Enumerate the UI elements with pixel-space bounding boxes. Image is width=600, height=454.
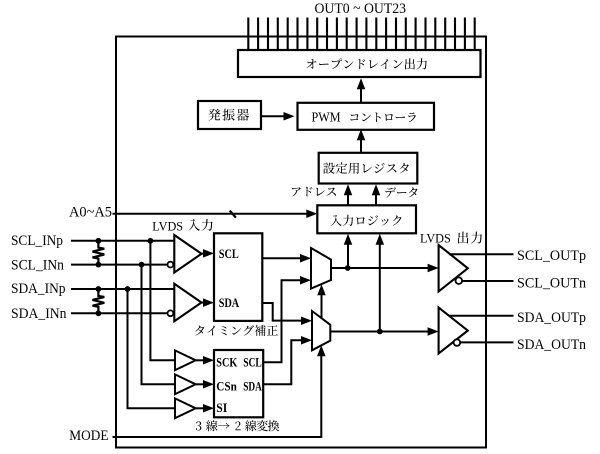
svg-text:OUT0 ~ OUT23: OUT0 ~ OUT23 [315, 1, 407, 17]
svg-text:SCL_INn: SCL_INn [11, 258, 64, 274]
svg-text:SCL_OUTn: SCL_OUTn [517, 276, 586, 292]
svg-text:LVDS: LVDS [420, 232, 451, 246]
svg-text:PWM: PWM [312, 111, 341, 126]
svg-text:SCK: SCK [216, 354, 238, 369]
svg-text:SCL_OUTp: SCL_OUTp [517, 248, 586, 264]
svg-text:A0~A5: A0~A5 [69, 205, 112, 221]
svg-text:SDA: SDA [219, 295, 240, 310]
svg-text:SCL: SCL [219, 246, 239, 261]
svg-text:SDA_OUTn: SDA_OUTn [517, 337, 586, 353]
svg-text:LVDS: LVDS [152, 219, 183, 233]
svg-text:SCL_INp: SCL_INp [11, 233, 63, 249]
svg-text:SDA_INp: SDA_INp [11, 281, 66, 297]
svg-text:SCL: SCL [243, 354, 262, 369]
svg-text:SDA_OUTp: SDA_OUTp [517, 310, 586, 326]
svg-text:SDA_INn: SDA_INn [11, 306, 67, 322]
svg-text:MODE: MODE [69, 428, 108, 444]
svg-text:SI: SI [216, 400, 227, 415]
svg-text:SDA: SDA [243, 378, 262, 393]
svg-text:CSn: CSn [216, 378, 237, 393]
